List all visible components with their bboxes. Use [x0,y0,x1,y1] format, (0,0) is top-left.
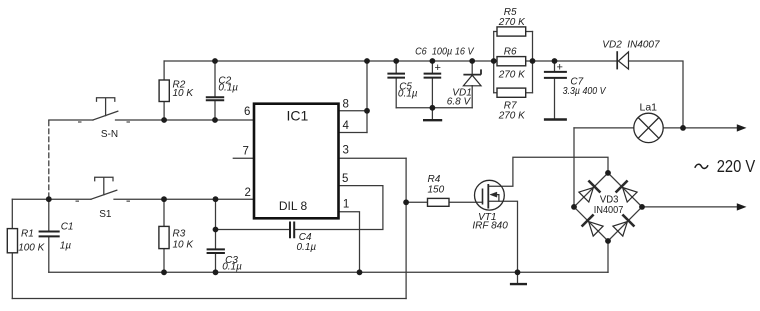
junction VD1 / top rail [469,58,475,64]
bridge diode VD3 lower-right [613,215,635,237]
arrow head output top [737,124,747,131]
svg-text:C1: C1 [61,222,74,233]
svg-text:0.1µ: 0.1µ [398,89,418,100]
svg-text:1: 1 [343,199,349,211]
wire output arrow bottom [642,206,738,208]
zener diode VD1 leads [471,61,473,108]
wire top rail [164,60,616,62]
junction pin8 riser / top rail [364,58,370,64]
resistor bank right rail [532,32,534,93]
capacitor C1 leads [48,199,50,272]
svg-text:6: 6 [244,106,250,118]
svg-text:C6 100µ 16 V: C6 100µ 16 V [415,47,475,58]
resistor R7 [497,88,526,97]
resistor R6 [497,57,526,66]
resistor R1 leads [11,199,13,298]
svg-text:IN4007: IN4007 [594,205,624,216]
wire VT1 source to bottom rail [488,201,517,272]
wire lamp right lead [663,127,683,129]
wire lamp left lead [574,127,634,129]
resistor bank left rail [493,32,495,93]
svg-text:10 K: 10 K [173,88,195,99]
resistor R5 stubs [494,31,533,33]
junction C5 / top rail [393,58,399,64]
wire pin 3 vertical to bottom rail [405,158,407,298]
ground bar under C7 [544,118,567,120]
svg-text:+: + [557,62,563,74]
svg-text:+: + [435,62,441,74]
svg-text:2: 2 [245,187,251,199]
bridge diode VD3 lower-left [582,215,604,237]
svg-text:100 K: 100 K [18,243,45,254]
switch contact tick S1 [76,200,80,202]
svg-text:4: 4 [343,120,350,132]
junction pin 3 riser / R4 [403,199,409,205]
junction pin 8 / pin 4 riser [364,108,370,114]
svg-text:7: 7 [243,146,249,158]
wire top rail right of VD2 [629,61,684,128]
capacitor C3 plates [207,249,225,253]
junction C3 / C4 wire [213,227,219,233]
resistor R1 [7,229,17,253]
junction C3 / inner rail [213,269,219,275]
svg-text:270 K: 270 K [498,17,526,28]
junction VT1 source / inner rail [515,269,521,275]
wire IC1 pin 4 [339,132,367,134]
junction bridge bottom vertex [605,238,611,244]
capacitor C6 plates [424,74,442,78]
svg-text:IRF 840: IRF 840 [472,221,508,232]
capacitor C3 leads [215,199,217,272]
ground bar under VT1 source [510,283,527,285]
switch S-N blade [93,111,118,120]
wire IC1 pin 8 [339,110,367,112]
transistor VT1 [475,180,505,210]
svg-text:VD3: VD3 [600,195,619,206]
wire C4 left lead to C3 node [216,229,290,231]
junction bridge left vertex [571,204,577,210]
junction C1 / S1 wire [46,196,52,202]
junction pin 1 riser / inner rail [357,269,363,275]
svg-text:8: 8 [343,99,349,111]
resistor R3 leads [163,199,165,272]
svg-text:3.3µ 400 V: 3.3µ 400 V [563,86,607,97]
switch S-N push-button actuator [97,98,115,116]
junction R bank left / top rail [491,58,497,64]
wire lamp left riser to bridge left vertex [573,128,575,207]
capacitor C7 plates [544,72,567,78]
svg-text:R4: R4 [428,174,441,185]
capacitor C5 plates [387,74,405,78]
svg-text:IC1: IC1 [287,108,309,124]
bridge VD3 diamond sides [574,173,642,241]
svg-text:0.1µ: 0.1µ [222,262,242,273]
wire VT1 drain to bridge top [488,157,608,186]
svg-text:R3: R3 [173,229,186,240]
svg-text:S1: S1 [99,209,112,220]
junction R bank right / top rail [530,58,536,64]
wire IC1 pin 1 to bottom rail [339,212,360,272]
wire pin 8/4 riser to top rail [366,61,368,133]
wire R4 right lead / gate of VT1 [449,201,483,203]
svg-text:1µ: 1µ [60,241,72,252]
svg-text:10 K: 10 K [173,240,195,251]
arrow head output bottom [737,203,747,210]
resistor R5 [497,27,526,36]
wire S1 right lead to pin 2 [114,198,254,200]
svg-text:150: 150 [428,185,445,196]
capacitor C5 leads [395,61,397,108]
svg-text:6.8 V: 6.8 V [447,97,472,108]
svg-text:270 K: 270 K [498,70,526,81]
bridge diode VD3 upper-right [616,181,638,203]
junction R3 / pin 2 wire [161,196,167,202]
wire C5/C6/VD1 bottom link [396,107,472,109]
junction C7 / top rail [552,58,558,64]
junction bridge top vertex [605,170,611,176]
svg-text:0.1µ: 0.1µ [297,242,317,253]
svg-text:270 K: 270 K [498,111,526,122]
wire ground stub VT1 [517,272,519,283]
svg-text:220 V: 220 V [717,156,756,176]
junction C2 top / top rail [212,58,218,64]
junction R3 / inner rail [161,269,167,275]
svg-text:R6: R6 [504,47,517,58]
resistor R4 [428,198,450,206]
wire IC1 pin 7 stub [233,157,254,159]
wire S1 left lead from R1 [12,198,91,200]
resistor R2 leads [163,61,165,120]
svg-text:DIL 8: DIL 8 [279,199,308,213]
zener diode VD1 [463,69,481,85]
svg-text:La1: La1 [640,102,658,114]
wire S-N right lead to pin 6 [116,119,254,121]
ground bar under C6 [423,119,442,121]
svg-text:3: 3 [343,144,349,156]
svg-text:S-N: S-N [101,129,118,140]
resistor R3 [159,226,169,248]
IC U1 IC1 body (DIL 8) [254,104,339,219]
wire S-N left lead [49,119,93,121]
capacitor C7 leads [554,61,556,118]
capacitor C6 leads [431,61,433,119]
switch contact tick S-N [78,121,82,123]
junction C6 bottom link [430,105,436,111]
junction C3 / pin 2 wire [213,196,219,202]
wire bridge bottom to rail [607,241,609,272]
wire IC1 pin 3 [339,157,406,159]
junction R2 / pin 6 wire [161,117,167,123]
diode VD2 [617,51,628,69]
capacitor C4 plates [290,222,294,239]
junction bridge right vertex [639,204,645,210]
tilde AC symbol [695,164,708,168]
lamp La1 [634,113,663,142]
switch S1 blade [91,190,117,199]
svg-text:R1: R1 [21,229,34,240]
switch S1 push-button actuator [95,177,113,195]
capacitor C1 plates [39,232,60,237]
svg-text:5: 5 [342,173,348,185]
resistor R2 [159,80,169,102]
capacitor C2 leads [214,61,216,120]
capacitor C2 plates [206,97,224,100]
wire inner bottom rail [49,271,608,273]
wire output arrow top [683,127,738,129]
bridge diode VD3 upper-left [579,181,601,203]
resistor R7 stubs [494,92,533,94]
junction C6 / top rail [430,58,436,64]
svg-text:0.1µ: 0.1µ [218,83,238,94]
junction C2 / pin 6 wire [212,117,218,123]
junction lamp output node [680,125,686,131]
wire dashed mechanical link [48,121,50,199]
svg-text:VD2 IN4007: VD2 IN4007 [602,39,660,50]
wire R4 left lead [406,201,427,203]
wire outer bottom rail [12,298,406,300]
wire IC1 pin 5 to C4 [295,186,383,230]
